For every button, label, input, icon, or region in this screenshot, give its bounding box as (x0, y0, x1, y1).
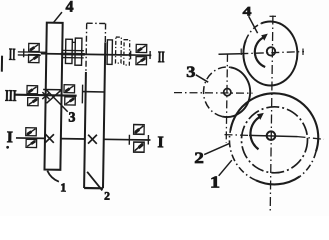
shaft III (15, 94, 76, 97)
big gear inner pitch circle (242, 107, 308, 173)
big gear horizontal centerline (225, 134, 250, 137)
coupling rect R4 on shaft II (75, 38, 82, 65)
coupling link bar (72, 41, 75, 43)
gear3 hub band on rect A (43, 88, 61, 90)
gear block rect B (gear 2), phantom top (87, 22, 106, 24)
big gear rotation arrow (250, 117, 260, 150)
big gear hub (267, 131, 276, 140)
svg-text:II: II (158, 47, 165, 66)
gear 4 rotation arrow (255, 37, 265, 67)
svg-text:4: 4 (65, 0, 73, 16)
wire (84, 72, 86, 188)
label 2 leader (87, 172, 103, 191)
centerline end ticks (240, 49, 242, 56)
wire (103, 42, 105, 188)
main vertical centerline (270, 16, 273, 213)
gear 3 vertical centerline (226, 54, 227, 143)
wire (104, 24, 106, 43)
bearing shaft III left (27, 86, 38, 94)
svg-text:2: 2 (194, 148, 204, 166)
small x on shaft III (42, 92, 49, 99)
shaft II (18, 51, 47, 53)
coupling rect R3 on shaft II (65, 39, 72, 63)
big gear outer dash-dot arcs (300, 151, 316, 176)
svg-text:I: I (157, 134, 164, 151)
cross diagonal to label 3 (46, 90, 68, 112)
bearing shaft I right (134, 125, 145, 135)
svg-text:3: 3 (68, 111, 75, 126)
wire (84, 187, 103, 189)
shaft II ticks (23, 49, 25, 58)
gear 3 circle (pitch, dash-dot) (222, 67, 250, 117)
gear 4 hub (267, 47, 275, 55)
label 1 leader (47, 171, 59, 182)
label 1 leader (219, 160, 232, 176)
label 3 leader (196, 75, 208, 82)
fixed-joint x on shaft I in rect A (45, 134, 54, 143)
label 4 leader (249, 16, 258, 33)
shaft I ticks (128, 135, 130, 145)
svg-text:2: 2 (104, 191, 110, 203)
bearing shaft III right (64, 85, 75, 93)
scan artifact left edge (1, 56, 3, 72)
svg-text:I: I (7, 129, 14, 146)
bearing shaft II left (29, 43, 40, 51)
bearing shaft I left (26, 128, 37, 136)
top tick (270, 15, 277, 17)
shaft I (16, 137, 45, 139)
fixed-joint x on shaft I in rect B (88, 135, 97, 144)
label 2 leader (204, 144, 229, 155)
gear rect R5 on shaft II (107, 40, 112, 65)
scan artifact dot (6, 146, 9, 149)
shaft II hub lines (63, 49, 84, 51)
gear 4 circle (243, 21, 297, 85)
svg-text:3: 3 (186, 63, 196, 81)
big gear outer circle solid arcs (230, 93, 318, 151)
wire (85, 23, 88, 72)
phantom rect R6 on shaft II (115, 37, 121, 63)
gear 3 hub (224, 89, 231, 96)
small gear on shaft III at rect B (81, 85, 83, 104)
bearing shaft II right (136, 44, 147, 52)
cross diagonal (47, 89, 62, 103)
svg-text:1: 1 (60, 180, 66, 194)
gear block rect A (gears 4-1) (44, 23, 62, 170)
gear 4 horizontal centerline (219, 53, 241, 56)
gear 3 horizontal centerline (174, 92, 253, 95)
label 4 leader (53, 12, 62, 23)
svg-text:III: III (5, 86, 17, 104)
svg-text:II: II (9, 45, 16, 64)
phantom rect R7 on shaft II (124, 40, 130, 65)
svg-text:4: 4 (243, 4, 252, 18)
